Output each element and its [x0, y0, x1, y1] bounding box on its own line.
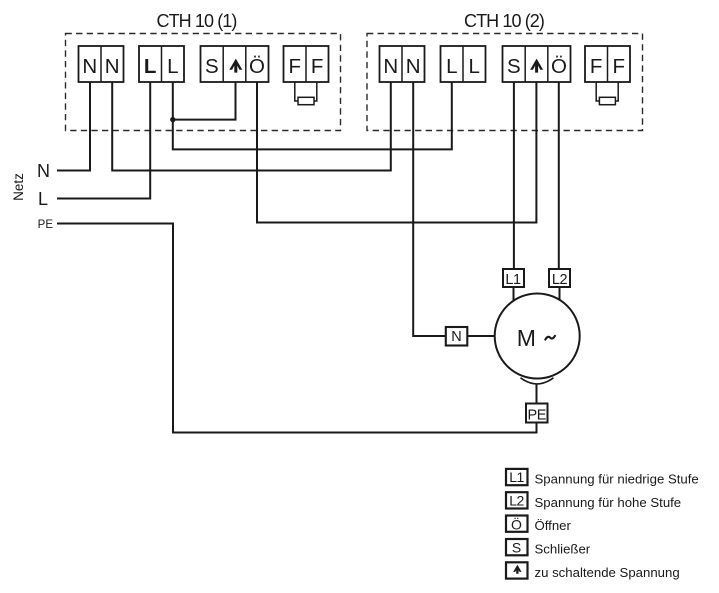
legend symbol S: [506, 539, 528, 556]
terminal block S ARROW Ö (CTH2): [503, 46, 571, 82]
wire motor to PE box: [536, 384, 538, 404]
frame CTH 10 (2): [367, 34, 643, 131]
wire CTH1 N2 to CTH2 N1: [112, 82, 391, 171]
terminal block L L (CTH1): [139, 46, 184, 82]
wire Netz PE to motor PE box: [57, 224, 537, 433]
svg-text:CTH 10 (1): CTH 10 (1): [156, 11, 236, 31]
svg-text:F: F: [613, 55, 626, 78]
wire N box to motor: [467, 335, 495, 337]
svg-text:PE: PE: [38, 219, 54, 231]
legend text Spannung für niedrige Stufe: [535, 471, 699, 486]
svg-text:L: L: [38, 189, 48, 209]
motor M~: [495, 294, 580, 379]
terminal block F F (CTH1): [284, 46, 329, 82]
svg-text:Ö: Ö: [551, 55, 567, 78]
legend symbol arrow: [506, 562, 528, 578]
motor terminal PE: [526, 404, 548, 424]
svg-text:L: L: [468, 55, 479, 78]
frame CTH 10 (1): [66, 34, 341, 131]
terminal block S ARROW Ö (CTH1): [201, 46, 269, 82]
wire CTH2 N2 to motor terminal N: [413, 82, 445, 336]
motor terminal L1: [503, 269, 524, 288]
svg-text:L: L: [167, 55, 178, 78]
label CTH 10 (2): [464, 11, 544, 31]
svg-text:S: S: [507, 55, 521, 78]
svg-text:L1: L1: [509, 469, 524, 485]
net label PE: [38, 219, 54, 231]
wire L1 box to motor: [513, 287, 515, 302]
svg-text:Netz: Netz: [11, 173, 26, 201]
wire CTH2 Ö to motor terminal L2: [558, 82, 560, 269]
svg-text:Spannung für niedrige Stufe: Spannung für niedrige Stufe: [535, 471, 699, 486]
svg-text:M: M: [517, 325, 536, 351]
svg-text:L: L: [144, 55, 157, 78]
svg-text:L2: L2: [552, 272, 568, 288]
svg-text:L1: L1: [505, 272, 521, 288]
svg-text:F: F: [289, 55, 302, 78]
terminal block N N (CTH1): [79, 46, 124, 82]
svg-text:N: N: [451, 329, 461, 345]
svg-text:PE: PE: [528, 407, 547, 423]
wire jumper CTH1 L2 to CTH1 arrow terminal: [173, 82, 236, 120]
wire CTH2 S to motor terminal L1: [513, 82, 515, 269]
motor terminal N: [446, 327, 468, 346]
fuse across F F (CTH2): [596, 82, 618, 105]
junction dot on CTH1 L2: [170, 117, 175, 122]
svg-text:N: N: [37, 161, 50, 181]
svg-text:Spannung für hohe Stufe: Spannung für hohe Stufe: [535, 495, 682, 510]
terminal block N N (CTH2): [380, 46, 425, 82]
legend symbol L2: [506, 492, 528, 508]
legend symbol Ö: [506, 515, 528, 532]
svg-text:L: L: [446, 55, 457, 78]
svg-text:Ö: Ö: [511, 515, 522, 532]
svg-text:Ö: Ö: [249, 55, 265, 78]
legend text Schließer: [535, 541, 591, 556]
net label N: [37, 161, 50, 181]
motor bottom arc: [521, 378, 554, 384]
wire CTH1 L2 to CTH2 L1: [173, 82, 452, 149]
legend text zu schaltende Spannung: [535, 565, 680, 580]
svg-text:Schließer: Schließer: [535, 541, 591, 556]
wire CTH1 Ö to CTH2 arrow terminal: [257, 82, 536, 223]
fuse across F F (CTH1): [295, 82, 317, 105]
svg-text:zu schaltende Spannung: zu schaltende Spannung: [535, 565, 680, 580]
legend text Öffner: [535, 518, 572, 533]
wire Netz L to CTH1 terminal L1: [57, 82, 150, 199]
svg-text:F: F: [590, 55, 603, 78]
legend text Spannung für hohe Stufe: [535, 495, 682, 510]
svg-text:N: N: [406, 55, 421, 78]
svg-text:N: N: [82, 55, 97, 78]
svg-text:N: N: [383, 55, 398, 78]
wire L2 box to motor: [559, 287, 561, 301]
svg-text:CTH 10 (2): CTH 10 (2): [464, 11, 544, 31]
label CTH 10 (1): [156, 11, 236, 31]
net label L: [38, 189, 48, 209]
svg-text:Öffner: Öffner: [535, 518, 572, 533]
legend symbol L1: [506, 469, 528, 485]
net label Netz: [11, 173, 26, 201]
terminal block L L (CTH2): [441, 46, 486, 82]
svg-text:L2: L2: [509, 492, 524, 508]
wire Netz N to CTH1 terminal N1: [57, 82, 90, 171]
svg-text:S: S: [512, 540, 521, 556]
terminal block F F (CTH2): [585, 46, 630, 82]
svg-text:N: N: [105, 55, 120, 78]
svg-text:S: S: [205, 55, 219, 78]
svg-text:F: F: [311, 55, 324, 78]
motor terminal L2: [549, 269, 570, 288]
